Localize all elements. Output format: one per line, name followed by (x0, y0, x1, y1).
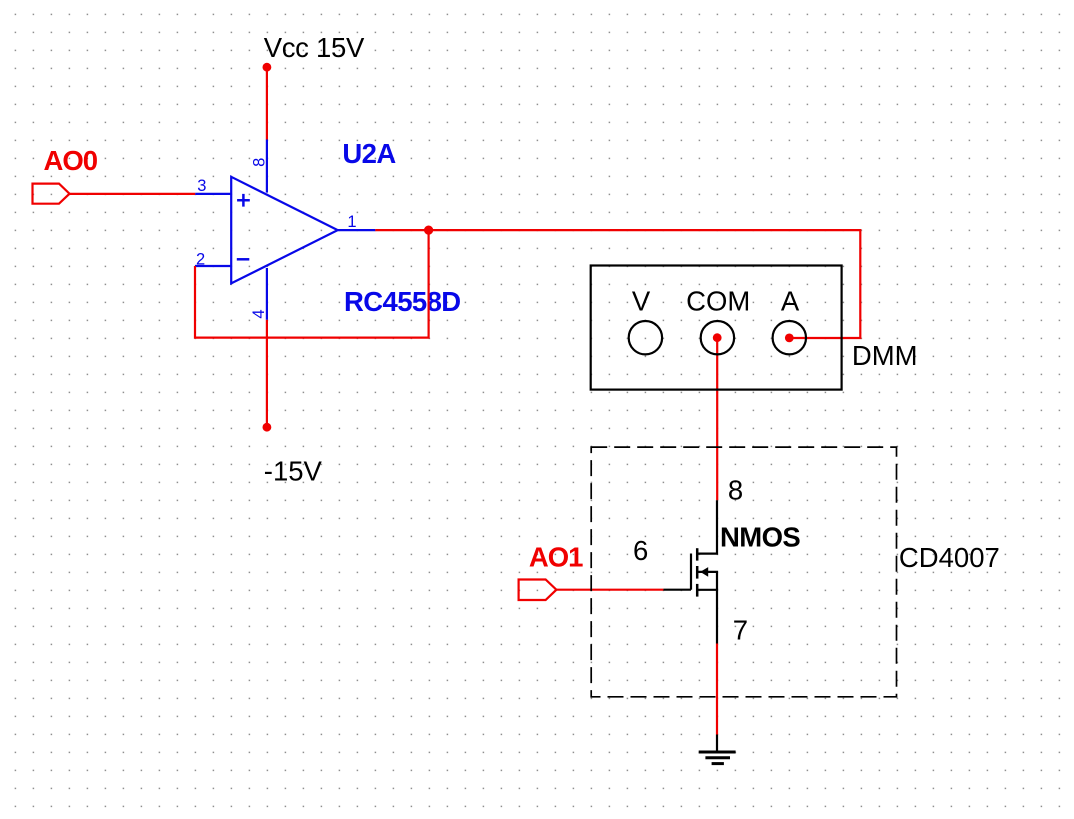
wire op-amp output to DMM A terminal (375, 230, 860, 338)
svg-text:Vcc 15V: Vcc 15V (264, 32, 365, 63)
channel tick source (696, 584, 699, 597)
op-amp pin 4 lead (266, 268, 268, 320)
op-amp U2A triangle (231, 177, 338, 284)
svg-text:DMM: DMM (852, 340, 918, 371)
svg-text:8: 8 (728, 474, 743, 505)
wire Vcc to op-amp pin 8 (266, 67, 268, 140)
DMM box (591, 266, 842, 390)
wire DMM COM to NMOS drain (716, 338, 718, 500)
DMM terminal COM circle (701, 321, 734, 354)
svg-text:U2A: U2A (342, 138, 396, 169)
op-amp minus marking (237, 258, 250, 261)
svg-text:6: 6 (633, 535, 648, 566)
op-amp pin 1 lead (338, 229, 376, 231)
node A terminal dot (785, 334, 794, 343)
svg-text:3: 3 (197, 177, 206, 195)
op-amp pin 2 lead (195, 265, 231, 267)
svg-text:8: 8 (250, 158, 268, 167)
svg-text:A: A (781, 286, 800, 317)
wire AO1 to NMOS gate (556, 589, 663, 591)
ground symbol (699, 752, 736, 764)
connector AO0 (33, 184, 70, 204)
node COM terminal dot (713, 333, 722, 342)
svg-text:AO1: AO1 (529, 541, 583, 572)
node Vcc dot (263, 63, 272, 72)
svg-text:-15V: -15V (264, 455, 323, 486)
drain connection (697, 500, 717, 553)
body arrow (700, 567, 708, 577)
wire feedback output to pin 2 (195, 230, 429, 338)
wire NMOS source to ground (716, 644, 718, 735)
svg-text:RC4558D: RC4558D (344, 286, 461, 317)
svg-text:1: 1 (347, 213, 356, 231)
junction dot at op-amp output node (424, 226, 433, 235)
svg-text:4: 4 (250, 309, 268, 318)
CD4007 dashed box (591, 447, 896, 697)
op-amp pin 3 lead (195, 193, 231, 195)
gate lead (663, 589, 691, 591)
svg-text:AO0: AO0 (44, 145, 98, 176)
connector AO1 (519, 580, 557, 601)
op-amp pin 8 lead (266, 140, 268, 193)
svg-text:NMOS: NMOS (720, 522, 800, 553)
wire op-amp pin 4 to -15V (266, 320, 268, 428)
wire AO0 to op-amp pin 3 (70, 193, 196, 195)
DMM terminal A circle (773, 321, 806, 354)
node -15V dot (263, 423, 272, 432)
channel tick body (696, 566, 699, 579)
svg-text:COM: COM (686, 286, 750, 317)
channel tick drain (696, 548, 699, 560)
DMM terminal V circle (629, 321, 662, 354)
svg-text:2: 2 (196, 251, 205, 269)
svg-text:7: 7 (733, 614, 748, 645)
op-amp plus marking (237, 194, 250, 207)
svg-text:V: V (632, 286, 651, 317)
body connection (698, 572, 717, 590)
ground lead (716, 735, 718, 753)
transistor NMOS (CD4007 section) (663, 500, 717, 643)
svg-text:CD4007: CD4007 (899, 542, 1000, 573)
source connection (697, 590, 717, 644)
gate bar (690, 554, 692, 590)
